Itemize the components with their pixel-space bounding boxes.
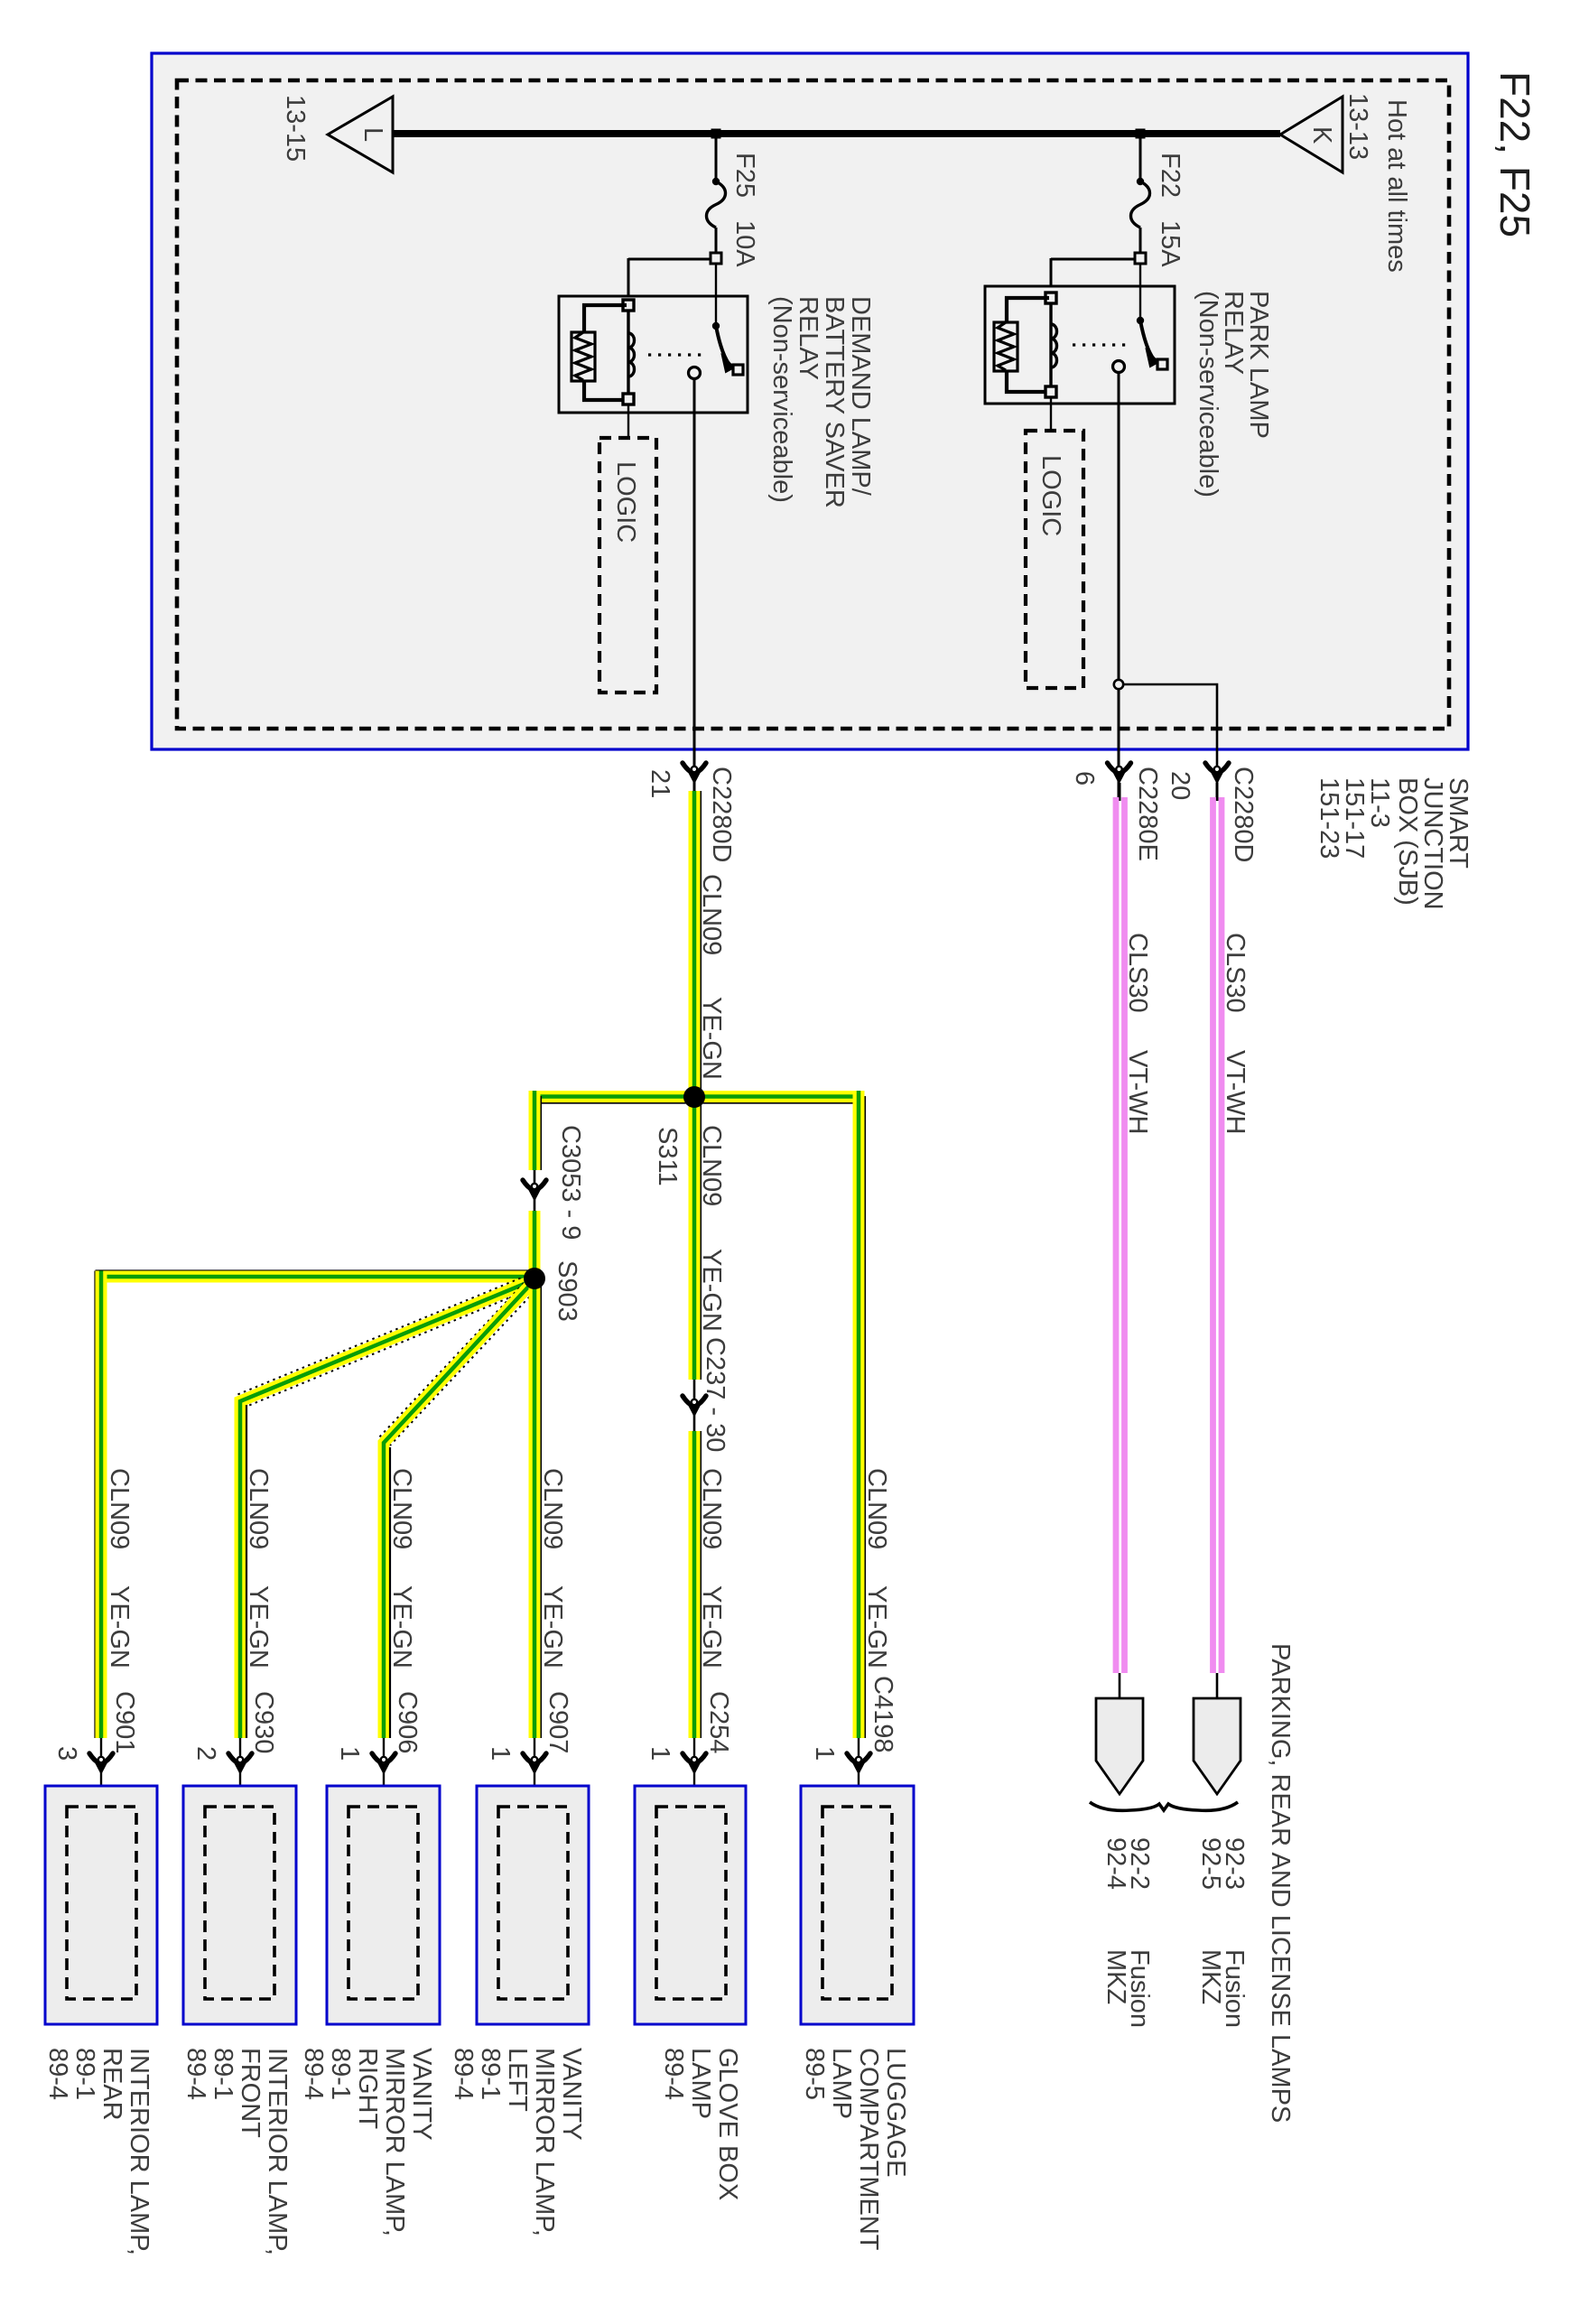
- component box: GLOVE BOX LAMP: [635, 1738, 746, 2200]
- svg-text:LAMP: LAMP: [686, 2048, 715, 2119]
- wire: demand relay contact to SJB pin 21: [693, 379, 696, 792]
- wire: junction branch to pin 20: [1123, 684, 1217, 797]
- svg-text:MIRROR LAMP,: MIRROR LAMP,: [380, 2048, 409, 2236]
- coil winding: [1049, 303, 1052, 386]
- svg-text:PARKING, REAR AND LICENSE LAMP: PARKING, REAR AND LICENSE LAMPS: [1266, 1643, 1295, 2123]
- power bus wire (hot at all times): [393, 130, 1280, 137]
- svg-text:C906: C906: [393, 1691, 422, 1753]
- wire: S311 left branch down to C3053-9: [534, 1091, 541, 1170]
- svg-text:C2280D: C2280D: [707, 767, 736, 862]
- node: splice S311: [683, 1086, 705, 1108]
- coil terminal bottom: [1045, 386, 1056, 397]
- svg-text:S903: S903: [553, 1260, 581, 1322]
- svg-text:Hot at all times: Hot at all times: [1382, 99, 1411, 273]
- svg-text:K: K: [1307, 126, 1336, 144]
- svg-text:S311: S311: [653, 1127, 682, 1186]
- inline connector C3053-9: [534, 1170, 536, 1211]
- coil terminal bottom: [623, 394, 634, 404]
- svg-text:89-4: 89-4: [181, 2048, 210, 2100]
- wire: fuse F22 to relay coil feed: [1051, 258, 1135, 261]
- switch throw contact terminal: [1157, 359, 1167, 369]
- node: bus junction at F22: [1136, 129, 1146, 139]
- svg-text:REAR: REAR: [98, 2048, 126, 2121]
- svg-text:C901: C901: [110, 1691, 139, 1753]
- wire: junction to pin 6: [1118, 689, 1120, 797]
- wire: park relay contact down to junction: [1118, 373, 1120, 681]
- switch pivot: [712, 322, 720, 330]
- coil winding: [627, 311, 629, 394]
- svg-text:MIRROR LAMP,: MIRROR LAMP,: [530, 2048, 559, 2236]
- svg-text:VT-WH: VT-WH: [1123, 1050, 1152, 1134]
- smart junction box (SJB) enclosure: [152, 53, 1468, 749]
- svg-text:21: 21: [646, 769, 674, 798]
- wire CLN09 YE-GN: C237-30 down to glove box lamp C254: [694, 1431, 733, 1753]
- connector C2280D pin 20: [1205, 763, 1229, 783]
- svg-text:BOX (SJB): BOX (SJB): [1393, 777, 1422, 906]
- svg-text:1: 1: [646, 1746, 674, 1761]
- switch common contact: [1113, 361, 1125, 373]
- svg-text:6: 6: [1070, 771, 1099, 786]
- svg-text:LUGGAGE: LUGGAGE: [881, 2048, 910, 2177]
- relay body: [985, 286, 1175, 404]
- switch arm: [716, 326, 729, 365]
- SJB block label: [1315, 777, 1473, 910]
- svg-text:RELAY: RELAY: [794, 296, 822, 380]
- svg-text:F22, F25: F22, F25: [1491, 71, 1538, 237]
- node: junction circle: [1114, 680, 1123, 689]
- svg-text:15A: 15A: [1156, 220, 1185, 267]
- actuation dotted line: [648, 353, 707, 356]
- svg-text:C3053 - 9: C3053 - 9: [556, 1125, 585, 1240]
- svg-text:GLOVE BOX: GLOVE BOX: [713, 2048, 742, 2200]
- connector C2280D pin 21: [683, 763, 706, 783]
- switch feed wire: [1139, 264, 1141, 320]
- pink wire CLS30 VT-WH (pin 6): [1116, 783, 1152, 1673]
- resistor (coil suppression): [571, 332, 595, 381]
- wire labels column (C901 branch): [105, 1468, 139, 1753]
- terminator symbol (parking lamps feed 1): [1119, 1673, 1121, 1701]
- pink wire CLS30 VT-WH (pin 20): [1213, 783, 1250, 1673]
- svg-text:(Non-serviceable): (Non-serviceable): [767, 296, 796, 503]
- svg-text:MKZ: MKZ: [1196, 1949, 1225, 2004]
- switch pivot: [1137, 317, 1144, 324]
- fuse F22 15A: [1131, 137, 1185, 267]
- svg-text:YE-GN: YE-GN: [538, 1585, 567, 1669]
- svg-text:13-13: 13-13: [1343, 93, 1372, 160]
- svg-text:CLN09: CLN09: [862, 1468, 891, 1549]
- svg-text:YE-GN: YE-GN: [244, 1585, 273, 1669]
- svg-text:92-4: 92-4: [1101, 1837, 1130, 1890]
- brace under terminators: [1090, 1802, 1238, 1810]
- svg-text:VANITY: VANITY: [557, 2048, 586, 2141]
- svg-text:89-1: 89-1: [209, 2048, 237, 2100]
- resistor (coil suppression): [994, 322, 1018, 371]
- node: bus junction at F25: [711, 129, 721, 139]
- svg-text:VANITY: VANITY: [407, 2048, 436, 2141]
- svg-text:13-15: 13-15: [281, 95, 310, 162]
- svg-text:92-5: 92-5: [1196, 1837, 1225, 1890]
- svg-text:89-5: 89-5: [800, 2048, 829, 2100]
- svg-text:LEFT: LEFT: [503, 2048, 532, 2112]
- svg-text:LOGIC: LOGIC: [1036, 455, 1065, 536]
- svg-text:C930: C930: [249, 1691, 278, 1753]
- svg-text:FRONT: FRONT: [236, 2048, 265, 2138]
- svg-text:CLN09: CLN09: [387, 1468, 416, 1549]
- svg-text:CLN09: CLN09: [697, 874, 726, 955]
- svg-text:89-4: 89-4: [43, 2048, 72, 2100]
- svg-text:CLS30: CLS30: [1123, 933, 1152, 1013]
- coil terminal top: [1045, 293, 1056, 303]
- relay: DEMAND LAMP / BATTERY SAVER RELAY: [559, 258, 875, 508]
- wire labels column (C930 branch): [244, 1468, 278, 1753]
- switch common contact: [689, 367, 701, 379]
- svg-text:LOGIC: LOGIC: [611, 461, 640, 543]
- svg-text:20: 20: [1166, 771, 1194, 800]
- relay: PARK LAMP RELAY: [985, 258, 1273, 497]
- terminator symbol (parking lamps feed 2): [1216, 1673, 1219, 1701]
- svg-text:C2280E: C2280E: [1133, 767, 1162, 861]
- svg-text:INTERIOR LAMP,: INTERIOR LAMP,: [125, 2048, 153, 2255]
- svg-text:C237 - 30: C237 - 30: [701, 1337, 729, 1452]
- resistor link wires: [584, 305, 627, 332]
- wire: S903 diagonal to vanity mirror right (C906): [377, 1278, 538, 1738]
- svg-text:C254: C254: [704, 1691, 733, 1753]
- svg-text:YE-GN: YE-GN: [697, 997, 726, 1080]
- svg-text:10A: 10A: [730, 220, 759, 267]
- node: splice S903: [524, 1268, 545, 1289]
- svg-text:L: L: [358, 127, 387, 142]
- SJB inner dashed border: [177, 80, 1449, 729]
- svg-text:89-4: 89-4: [299, 2048, 328, 2100]
- svg-text:89-4: 89-4: [659, 2048, 688, 2100]
- svg-text:YE-GN: YE-GN: [697, 1249, 726, 1332]
- wire: S311 right branch down to C4198 (wire B): [859, 1091, 897, 1752]
- svg-text:(Non-serviceable): (Non-serviceable): [1194, 291, 1222, 497]
- wire: S903 straight down to vanity mirror left (C907): [534, 1273, 541, 1738]
- svg-text:151-23: 151-23: [1315, 777, 1343, 859]
- svg-text:1: 1: [810, 1746, 839, 1761]
- svg-text:3: 3: [52, 1746, 81, 1761]
- switch feed wire: [715, 264, 717, 325]
- LOGIC box (park lamp relay): [1026, 397, 1083, 688]
- wire: fuse F25 to relay coil feed: [628, 258, 711, 261]
- relay body: [559, 296, 748, 413]
- svg-text:1: 1: [335, 1746, 364, 1761]
- svg-text:COMPARTMENT: COMPARTMENT: [854, 2048, 883, 2251]
- wire labels column (C906 branch): [387, 1468, 422, 1753]
- inline connector C237-30: [693, 1380, 696, 1431]
- component box: VANITY MIRROR LAMP, LEFT: [449, 1738, 589, 2236]
- resistor link wires: [1007, 298, 1049, 322]
- svg-text:YE-GN: YE-GN: [697, 1585, 726, 1669]
- fuse F25 10A: [707, 137, 760, 267]
- svg-text:2: 2: [191, 1746, 220, 1761]
- svg-text:RIGHT: RIGHT: [353, 2048, 382, 2130]
- svg-text:YE-GN: YE-GN: [105, 1585, 134, 1669]
- splice S311 horizontal wire (left and right branches): [529, 1097, 864, 1103]
- svg-text:CLN09: CLN09: [105, 1468, 134, 1549]
- svg-text:MKZ: MKZ: [1101, 1949, 1130, 2004]
- actuation dotted line: [1073, 343, 1131, 346]
- svg-text:CLN09: CLN09: [697, 1125, 726, 1206]
- svg-text:F22: F22: [1156, 153, 1185, 198]
- svg-text:CLN09: CLN09: [697, 1468, 726, 1549]
- svg-text:LAMP: LAMP: [827, 2048, 856, 2119]
- svg-text:CLS30: CLS30: [1221, 933, 1250, 1013]
- svg-text:1: 1: [486, 1746, 515, 1761]
- svg-text:INTERIOR LAMP,: INTERIOR LAMP,: [263, 2048, 292, 2255]
- coil terminal top: [623, 300, 634, 311]
- LOGIC box (demand lamp relay): [599, 404, 656, 693]
- svg-text:DEMAND LAMP/: DEMAND LAMP/: [846, 296, 875, 497]
- component box: LUGGAGE COMPARTMENT LAMP: [800, 1738, 914, 2251]
- wire labels column (C907 branch): [538, 1468, 572, 1753]
- svg-text:89-1: 89-1: [70, 2048, 99, 2100]
- svg-text:C907: C907: [544, 1691, 572, 1753]
- wire: S903 diagonal to interior lamp front (C930): [237, 1276, 532, 1738]
- wire: C3053-9 to splice S903: [529, 1211, 541, 1273]
- splice S903 horizontal wire to interior lamp rear: [96, 1271, 535, 1739]
- connector C2280E pin 6: [1108, 763, 1131, 783]
- svg-text:YE-GN: YE-GN: [387, 1585, 416, 1669]
- component box: INTERIOR LAMP, FRONT: [181, 1738, 296, 2255]
- svg-text:CLN09: CLN09: [244, 1468, 273, 1549]
- svg-text:89-4: 89-4: [449, 2048, 478, 2100]
- component box: VANITY MIRROR LAMP, RIGHT: [299, 1738, 440, 2236]
- svg-text:CLN09: CLN09: [538, 1468, 567, 1549]
- svg-text:C2280D: C2280D: [1229, 767, 1258, 862]
- svg-text:89-1: 89-1: [476, 2048, 505, 2100]
- wire CLN09 YE-GN: pin 21 down to splice S311 and on to C237: [694, 791, 726, 1380]
- off-page connector K triangle: [1280, 97, 1343, 172]
- svg-text:BATTERY SAVER: BATTERY SAVER: [820, 296, 849, 508]
- svg-text:89-1: 89-1: [326, 2048, 355, 2100]
- component box: INTERIOR LAMP, REAR: [43, 1738, 157, 2255]
- svg-text:C4198: C4198: [869, 1676, 897, 1752]
- off-page connector L triangle: [328, 97, 393, 172]
- switch throw contact terminal: [733, 365, 743, 375]
- switch arm: [1140, 321, 1154, 359]
- svg-text:VT-WH: VT-WH: [1221, 1050, 1250, 1134]
- svg-text:F25: F25: [730, 153, 759, 198]
- svg-text:YE-GN: YE-GN: [862, 1585, 891, 1669]
